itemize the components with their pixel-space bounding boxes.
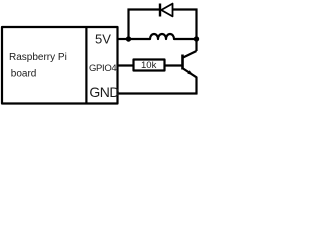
wire: GND pin to emitter (117, 92, 198, 94)
Raspberry Pi board box (2, 27, 118, 104)
wire: GPIO4 pin to resistor (117, 64, 134, 66)
diode D1 triangle (161, 4, 172, 17)
svg-text:GPIO4: GPIO4 (89, 63, 116, 74)
svg-text:Raspberry Pi: Raspberry Pi (9, 52, 67, 63)
transistor Q1 base bar (181, 55, 184, 70)
wire: resistor to transistor base (165, 64, 183, 66)
resistor R1 box (134, 60, 165, 71)
svg-text:board: board (11, 68, 37, 79)
wire: 5V pin to junction (117, 38, 129, 40)
node: collector junction dot (194, 36, 199, 41)
svg-text:5V: 5V (95, 32, 111, 47)
diode D1 cathode bar (159, 4, 161, 17)
wire: diode rail right segment (173, 8, 198, 10)
svg-text:GND: GND (89, 84, 119, 100)
wire: right riser (195, 9, 197, 52)
node: 5V junction dot (126, 36, 131, 41)
wire: diode rail left segment (128, 8, 160, 10)
transistor Q1 collector lead (183, 51, 197, 58)
relay coil L1 (129, 34, 197, 39)
transistor Q1 emitter lead (183, 69, 197, 95)
transistor Q1 emitter arrowhead (187, 70, 193, 75)
svg-text:10k: 10k (141, 60, 157, 71)
wire: left riser to diode rail (127, 9, 129, 41)
pin column divider (85, 26, 87, 104)
